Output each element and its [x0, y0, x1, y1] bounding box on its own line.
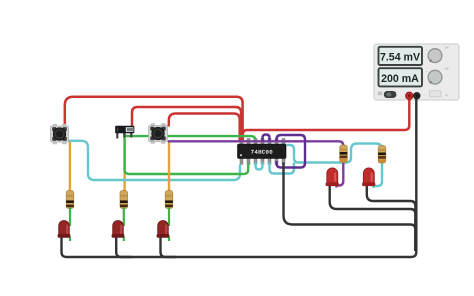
- svg-text:+: +: [426, 48, 428, 52]
- wire purple resistor R4 to LED4 anode: [337, 162, 344, 188]
- wire orange button1 to resistor R1: [69, 141, 71, 193]
- wire black LED2 to ground bus: [116, 237, 132, 257]
- wire cyan IC pin8 to resistor R5: [287, 144, 383, 163]
- LED D5: [362, 168, 375, 186]
- IC U1 74HC00 pin stubs bottom: [240, 158, 285, 164]
- knob voltage: [428, 49, 442, 63]
- wire cyan IC pin5 joint: [270, 163, 295, 174]
- resistor R2: [120, 191, 128, 209]
- power supply terminal +: [406, 92, 414, 100]
- resistor R3: [165, 191, 173, 209]
- power toggle: [378, 92, 383, 96]
- resistor R5: [378, 146, 386, 164]
- wire green switch to IC pin2: [125, 134, 249, 175]
- svg-text:74HC00: 74HC00: [251, 149, 274, 156]
- LED D3: [157, 221, 170, 238]
- wire black LED3 to ground bus: [161, 237, 177, 257]
- wire black LED5 to ground: [367, 186, 416, 251]
- wire purple IC pin11 to pin10 loop: [263, 135, 270, 142]
- IC U1 74HC00 body: [238, 144, 287, 159]
- vent: [430, 91, 442, 97]
- wire black LED1 to power supply - (ground bus): [62, 98, 417, 257]
- svg-text:200 mA: 200 mA: [381, 73, 419, 85]
- svg-text:O#: O#: [445, 67, 449, 71]
- wire purple IC pin9 to pin6 loop: [277, 135, 306, 168]
- svg-text:⏚: ⏚: [445, 91, 450, 97]
- pushbutton B1: [51, 124, 69, 144]
- wire red button1 to IC pin14: [65, 97, 243, 141]
- wire cyan IC pin3 to pin4 loop: [256, 162, 263, 170]
- wire purple button2 to resistor R4: [168, 141, 343, 152]
- LED D2: [112, 221, 125, 238]
- wire orange switch to resistor R2: [123, 134, 125, 193]
- wire red power supply + to IC pin14: [243, 98, 410, 141]
- wire green lead resistor R3 to LED3: [168, 208, 170, 227]
- knob current: [428, 70, 442, 84]
- LED D1: [58, 221, 71, 238]
- wire black LED4 to ground: [330, 185, 416, 251]
- power supply terminal -: [414, 93, 421, 100]
- wire black IC pin7 to ground: [284, 163, 416, 252]
- wire red switch to IC pin14: [132, 107, 241, 141]
- power supply PS1: [374, 44, 459, 100]
- svg-text:+: +: [426, 70, 428, 74]
- resistor R4: [340, 145, 348, 163]
- wire orange button2 to resistor R3: [168, 141, 170, 193]
- slide switch S1: [116, 126, 135, 139]
- resistor R1: [66, 191, 74, 209]
- wire cyan button1 to IC pin1: [67, 141, 241, 180]
- wire red button2 to IC pin14: [169, 114, 240, 142]
- IC U1 74HC00 pin stubs top: [240, 139, 285, 145]
- svg-text:7.54 mV: 7.54 mV: [380, 52, 420, 64]
- wire green switch to IC pin12: [125, 134, 256, 142]
- wire green lead resistor R1 to LED1: [69, 208, 71, 227]
- wire cyan resistor R5 to LED5 anode: [374, 162, 383, 189]
- LED D4: [326, 168, 339, 186]
- wire green lead resistor R2 to LED2: [123, 208, 125, 227]
- pushbutton B2: [149, 123, 168, 143]
- svg-text:O#: O#: [445, 46, 449, 50]
